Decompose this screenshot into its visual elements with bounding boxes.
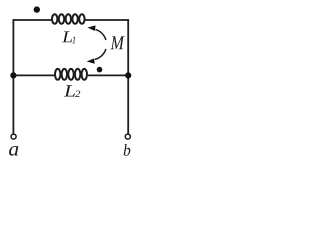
mutual coupling arc upper (to L1) [96,30,106,41]
polarity dot L1 [34,6,40,12]
wire left vertical [12,19,14,134]
wire right vertical [127,19,129,134]
label L2 [64,85,75,96]
arrowhead to L2 [87,59,95,64]
label b [124,144,131,156]
wire middle horizontal right [88,74,128,76]
wire middle horizontal left [13,74,54,76]
mutual coupling arc lower (to L2) [95,49,106,60]
junction node right [125,72,131,78]
label M [110,36,124,49]
label L1 [62,31,72,42]
terminal b [125,134,130,139]
label L1 subscript 1 [72,37,75,44]
inductor L2 [55,69,87,80]
junction node left [10,72,16,78]
wire top-left segment [13,19,51,21]
label a [9,146,18,156]
polarity dot L2 [97,67,103,73]
wire top-right segment [86,19,129,21]
inductor L1 [52,14,85,24]
terminal a [11,134,16,139]
arrowhead to L1 [87,25,95,31]
label L2 subscript 2 [75,91,80,97]
